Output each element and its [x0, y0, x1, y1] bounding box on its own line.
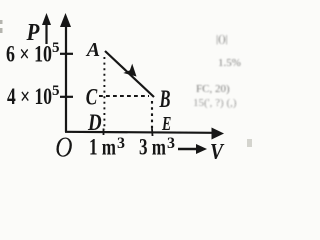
V axis arrow shaft: [178, 148, 198, 150]
faint mark right edge: [247, 139, 252, 147]
tick 1 m3: [103, 129, 105, 136]
faint bleed-through text right side: [193, 33, 241, 109]
svg-text:E: E: [161, 113, 171, 135]
tick 6x10^5: [60, 53, 73, 55]
svg-text:3 m: 3 m: [139, 135, 166, 160]
svg-text:1 m: 1 m: [89, 135, 116, 160]
svg-text:3: 3: [167, 135, 175, 152]
svg-text:A: A: [85, 39, 100, 61]
svg-text:1.5%: 1.5%: [218, 57, 241, 69]
y-axis arrowhead: [60, 13, 71, 27]
svg-text:|()|: |()|: [216, 33, 228, 45]
svg-text:6 × 10: 6 × 10: [6, 41, 52, 66]
svg-text:4 × 10: 4 × 10: [7, 84, 52, 109]
svg-text:V: V: [210, 139, 225, 159]
svg-text:5: 5: [52, 83, 60, 99]
svg-text:D: D: [87, 109, 102, 135]
svg-text:C: C: [86, 85, 98, 110]
x-axis arrowhead: [212, 128, 225, 140]
dashed line C-B: [99, 95, 149, 97]
small P arrow shaft: [45, 23, 47, 44]
svg-text:15(', ?) (,): 15(', ?) (,): [193, 97, 237, 109]
dotted line A-C-D: [103, 57, 105, 130]
svg-text:B: B: [159, 86, 171, 113]
svg-text:O: O: [55, 132, 72, 159]
y-axis (P axis): [65, 22, 67, 132]
tick 4x10^5: [60, 96, 73, 98]
small P arrowhead: [42, 13, 51, 25]
faint mark left edge: [0, 20, 3, 24]
tick 3 m3: [151, 129, 154, 137]
svg-text:5: 5: [52, 40, 60, 56]
svg-text:FC, 20): FC, 20): [196, 83, 230, 95]
x-axis (V axis): [65, 132, 213, 133]
svg-text:3: 3: [117, 135, 125, 152]
V axis arrowhead: [196, 144, 207, 154]
dotted line B-E: [151, 101, 153, 130]
process line A to B: [105, 51, 154, 97]
arrowhead on process line: [123, 64, 136, 77]
